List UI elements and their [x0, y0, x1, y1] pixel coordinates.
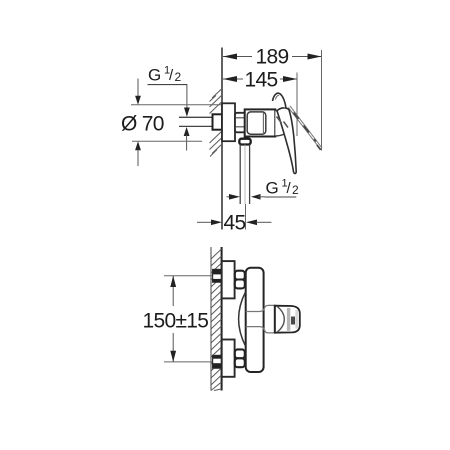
svg-text:189: 189	[256, 46, 289, 69]
svg-text:Ø 70: Ø 70	[121, 113, 164, 136]
svg-text:150±15: 150±15	[143, 310, 209, 333]
svg-text:45: 45	[224, 212, 246, 235]
svg-text:G: G	[148, 66, 161, 85]
svg-text:2: 2	[292, 183, 299, 197]
svg-text:2: 2	[175, 70, 182, 84]
svg-text:145: 145	[245, 68, 278, 91]
svg-text:G: G	[266, 179, 279, 198]
